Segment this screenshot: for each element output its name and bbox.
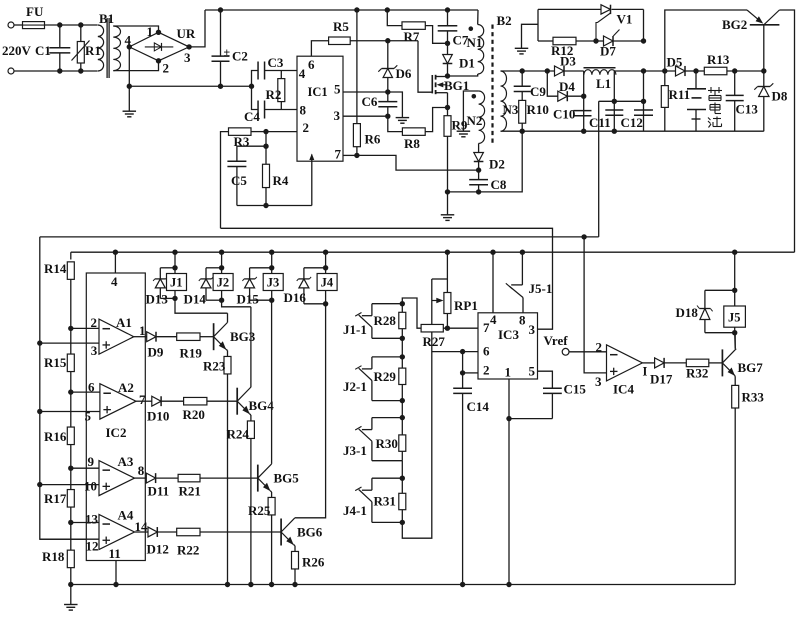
svg-text:C4: C4: [244, 109, 260, 124]
svg-text:B2: B2: [497, 13, 512, 28]
svg-text:1: 1: [139, 323, 146, 338]
wire chain top corner: [70, 252, 72, 259]
svg-text:IC2: IC2: [106, 425, 127, 440]
capacitor C5: [237, 146, 266, 161]
wire D5 to battery node: [685, 70, 696, 72]
diode D3: [555, 66, 565, 76]
resistor R4: [265, 146, 267, 164]
capacitor C14: [462, 352, 464, 388]
switch J1-1: [372, 303, 402, 305]
node C11 top junction: [612, 99, 617, 104]
node C8 bottom junction: [476, 189, 481, 194]
svg-text:R9: R9: [452, 118, 468, 133]
svg-text:C6: C6: [362, 94, 378, 109]
svg-text:FU: FU: [26, 4, 44, 19]
svg-text:R28: R28: [374, 313, 397, 328]
svg-text:IC3: IC3: [498, 327, 519, 342]
wire R5 to gate drop: [350, 40, 418, 42]
node pin1 gnd junction: [506, 582, 511, 587]
svg-text:11: 11: [109, 546, 121, 561]
transistor BG4: [236, 388, 238, 415]
winding N1: [478, 25, 484, 75]
svg-text:J5-1: J5-1: [529, 281, 553, 296]
winding N3: [501, 71, 507, 131]
svg-text:C5: C5: [231, 173, 247, 188]
svg-text:R8: R8: [404, 136, 420, 151]
wire L1 right to main: [615, 70, 644, 72]
wire N1 bottom to drain: [448, 74, 478, 76]
resistor R27: [421, 324, 443, 332]
transformer B1 core: [106, 18, 108, 78]
wire V1 top line: [538, 8, 601, 10]
bridge UR inner diode: [145, 46, 174, 48]
capacitor C4: [252, 86, 259, 109]
wire A3 pin10: [37, 482, 42, 487]
svg-text:R27: R27: [423, 334, 446, 349]
svg-text:R26: R26: [302, 555, 325, 570]
node D7 anode junction: [593, 38, 598, 43]
wire mains bottom line: [14, 70, 98, 72]
resistor R21: [156, 477, 178, 479]
label battery dian: [710, 103, 721, 114]
ground primary return: [441, 214, 455, 216]
op-amp A2: [100, 384, 136, 419]
svg-text:R33: R33: [742, 390, 765, 405]
diode D4: [558, 91, 568, 101]
node C1 bottom junction: [57, 68, 62, 73]
node D8 top junction: [761, 68, 766, 73]
wire aux gnd rail: [448, 131, 523, 192]
node R9 gnd rail junction: [445, 189, 450, 194]
inductor L1: [584, 67, 616, 69]
wire pin3 down to R8: [388, 116, 403, 131]
resistor R10: [519, 100, 526, 123]
node chain J1-1 bottom: [400, 336, 405, 341]
diode D1: [447, 43, 449, 54]
svg-text:7: 7: [139, 392, 146, 407]
svg-text:R32: R32: [686, 366, 708, 381]
wire mains top line: [14, 24, 23, 26]
wire IC1 pin2: [266, 131, 297, 133]
node R1 top junction: [78, 22, 83, 27]
svg-text:J2: J2: [217, 276, 230, 290]
fuse FU: [23, 22, 45, 29]
svg-text:4: 4: [125, 33, 132, 48]
capacitor C9: [521, 71, 523, 86]
wire sense line down: [598, 101, 600, 237]
label battery chi: [708, 117, 722, 128]
node C10 bottom: [581, 129, 586, 134]
resistor R18: [70, 523, 72, 551]
svg-text:6: 6: [308, 57, 315, 72]
node C14 gnd junction: [460, 582, 465, 587]
node C3/C4 branch: [249, 84, 254, 89]
svg-text:BG3: BG3: [230, 329, 256, 344]
diode D5: [676, 66, 686, 76]
wire R7 rail drop: [385, 7, 390, 12]
wire A2 pin5: [37, 409, 42, 414]
svg-text:R22: R22: [177, 543, 199, 558]
resistor R22: [158, 531, 177, 533]
wire feedback line to IC3 pin3: [221, 228, 553, 329]
wire IC1 pin6 to R5: [311, 41, 328, 56]
wire R11 top rail: [665, 10, 747, 71]
wire L1 left drop: [583, 71, 585, 131]
svg-text:R10: R10: [527, 102, 549, 117]
node C13 top junction: [732, 68, 737, 73]
zener D8: [763, 71, 765, 87]
switch J4-1: [372, 477, 402, 479]
svg-text:J2-1: J2-1: [343, 379, 367, 394]
node D6 top: [385, 38, 390, 43]
svg-text:R6: R6: [365, 132, 381, 147]
node UR top vertex: [156, 30, 161, 35]
svg-text:BG6: BG6: [297, 525, 323, 540]
node sense drop junction: [581, 234, 586, 239]
svg-text:C8: C8: [491, 177, 507, 192]
resistor R23: [226, 349, 228, 350]
node R26 gnd junction: [292, 582, 297, 587]
resistor R8: [402, 128, 425, 136]
node RP1/R27 junction: [445, 326, 450, 331]
transistor BG7: [721, 349, 723, 376]
node D7 out junction: [641, 38, 646, 43]
svg-text:12: 12: [86, 539, 99, 554]
label battery xu: [708, 87, 722, 101]
node primary gnd junction: [127, 84, 132, 89]
diode D17: [642, 362, 654, 364]
diode D12: [135, 531, 149, 533]
capacitor C10: [574, 110, 592, 112]
node main line D7 drop: [641, 68, 646, 73]
potentiometer RP1: [445, 250, 450, 255]
capacitor C12: [643, 71, 645, 131]
wire UR out to top rail: [189, 10, 205, 47]
node chain J2-1 top: [400, 354, 405, 359]
svg-text:13: 13: [85, 512, 99, 527]
svg-text:3: 3: [334, 108, 341, 123]
thyristor V1: [601, 5, 611, 14]
resistor R17: [70, 468, 72, 489]
svg-text:R30: R30: [376, 436, 398, 451]
switch J3-1: [372, 417, 402, 419]
svg-text:I: I: [643, 365, 648, 379]
wire chain bottom hook: [402, 279, 432, 538]
node UR left vertex: [127, 44, 132, 49]
svg-text:R14: R14: [44, 261, 67, 276]
svg-text:J4-1: J4-1: [343, 503, 367, 518]
svg-text:N3: N3: [503, 102, 519, 117]
svg-text:C10: C10: [553, 107, 575, 122]
svg-text:±: ±: [224, 45, 231, 59]
node A1 pin2 junction: [68, 326, 73, 331]
svg-text:C2: C2: [232, 49, 248, 64]
wire R7 to C7 node: [425, 26, 447, 44]
transformer B1 secondary: [113, 26, 120, 71]
wire IC1 pin5: [343, 91, 388, 93]
node pin7 junction: [354, 153, 359, 158]
svg-text:4: 4: [490, 312, 497, 327]
svg-text:D13: D13: [146, 292, 169, 307]
resistor R31: [401, 478, 403, 493]
svg-text:D2: D2: [489, 157, 505, 172]
svg-text:5: 5: [334, 82, 341, 97]
svg-text:R12: R12: [551, 43, 573, 58]
ground C6 area: [396, 117, 410, 119]
node chain J2-1 bottom: [400, 398, 405, 403]
svg-text:2: 2: [483, 363, 490, 378]
resistor R3: [229, 128, 252, 136]
node chain bottom junction: [68, 582, 73, 587]
resistor R9: [447, 108, 449, 116]
ground V1 area: [515, 47, 529, 49]
resistor R5: [329, 37, 351, 45]
svg-text:N1: N1: [467, 35, 483, 50]
svg-text:D16: D16: [284, 290, 307, 305]
wire UR left vertex down: [128, 47, 130, 86]
ground primary: [128, 86, 130, 111]
relay J1 with diode D13: [172, 250, 177, 255]
svg-text:D10: D10: [147, 409, 169, 424]
ground lower left: [64, 604, 78, 606]
node BG1 drain junction: [445, 73, 450, 78]
node R1 bottom junction: [78, 68, 83, 73]
wire pin5 to gnd hook: [388, 92, 403, 118]
resistor R25: [270, 491, 271, 492]
resistor R16: [70, 392, 72, 427]
wire left input bus: [40, 237, 99, 539]
wire R9 to ground: [447, 192, 449, 215]
svg-text:A3: A3: [118, 454, 134, 469]
wire IC1 pin7: [343, 154, 357, 156]
wire chain seg1: [401, 338, 403, 357]
svg-text:R13: R13: [707, 52, 730, 67]
transistor BG1 MOSFET: [431, 75, 433, 93]
resistor R33: [734, 375, 737, 376]
wire IC2 pin11: [115, 561, 117, 585]
svg-text:A2: A2: [118, 380, 134, 395]
wire J2 to BG4 collector: [222, 300, 251, 307]
svg-text:L1: L1: [596, 76, 611, 91]
svg-text:UR: UR: [177, 26, 196, 41]
transformer B1 primary: [98, 25, 104, 71]
wire chain top hook to R27: [402, 298, 421, 328]
wire V1 cathode drop: [643, 9, 645, 41]
node D2/C8 junction: [476, 167, 481, 172]
svg-text:D8: D8: [772, 89, 788, 104]
svg-text:R16: R16: [44, 429, 67, 444]
node D4 out junction: [581, 94, 586, 99]
node C14 pin2 junction: [460, 370, 465, 375]
resistor R1 varistor: [80, 25, 82, 42]
op-amp A3: [99, 461, 135, 496]
IC2 box: [86, 273, 145, 561]
resistor R11: [664, 71, 666, 86]
svg-text:D4: D4: [559, 79, 575, 94]
node R10 bottom junction: [520, 129, 525, 134]
svg-text:R19: R19: [180, 346, 203, 361]
zener D18: [699, 308, 710, 310]
svg-text:C9: C9: [530, 84, 546, 99]
svg-text:R2: R2: [266, 87, 282, 102]
wire A3 pin9: [71, 467, 99, 469]
wire IC3 pin5 to C15: [538, 371, 553, 388]
resistor R6: [353, 124, 360, 147]
svg-text:C3: C3: [268, 55, 284, 70]
switch J2-1: [372, 356, 402, 358]
svg-text:J3: J3: [267, 276, 280, 290]
svg-text:8: 8: [138, 463, 145, 478]
relay J2 with diode D14: [219, 250, 224, 255]
node C6 bottom junction: [385, 114, 390, 119]
resistor R32: [664, 362, 686, 364]
svg-text:D14: D14: [184, 292, 207, 307]
node UR right vertex: [186, 44, 191, 49]
svg-text:3: 3: [595, 374, 602, 389]
svg-text:Vref: Vref: [544, 333, 569, 348]
svg-text:R7: R7: [404, 29, 420, 44]
diode D2: [474, 153, 484, 162]
wire sense to IC4 pin3: [584, 237, 606, 373]
node R23 gnd junction: [225, 582, 230, 587]
wire IC3 pin1: [508, 379, 510, 585]
wire D4 branch: [547, 71, 558, 96]
wire A1 pin3: [37, 340, 42, 345]
svg-text:5: 5: [85, 409, 92, 424]
bridge UR diamond: [129, 32, 189, 61]
svg-text:3: 3: [91, 343, 98, 358]
capacitor C3: [252, 71, 259, 87]
node BG1 source junction: [445, 105, 450, 110]
svg-text:2: 2: [596, 340, 603, 355]
svg-text:C13: C13: [736, 102, 759, 117]
capacitor C7: [445, 7, 450, 12]
svg-text:4: 4: [299, 66, 306, 81]
capacitor C13: [734, 71, 736, 95]
wire A4 pin12: [40, 538, 99, 540]
node C7 bottom junction: [445, 41, 450, 46]
capacitor C6: [387, 92, 389, 101]
svg-text:D12: D12: [147, 542, 169, 557]
terminal Vref: [562, 348, 569, 355]
wire lower supply rail: [71, 251, 795, 253]
svg-text:9: 9: [88, 454, 95, 469]
node C14 top junction: [460, 349, 465, 354]
svg-text:R24: R24: [227, 427, 250, 442]
resistor R30: [401, 418, 403, 435]
wire BG5 collector: [271, 300, 273, 464]
wire BG6 collector: [295, 304, 326, 518]
svg-text:A4: A4: [118, 508, 134, 523]
svg-text:IC4: IC4: [613, 382, 634, 397]
resistor R26: [294, 545, 296, 546]
resistor R29: [401, 357, 403, 368]
wire R6 rail line: [354, 7, 359, 12]
resistor R20: [161, 400, 183, 402]
svg-text:R17: R17: [44, 491, 67, 506]
wire gnd bus y86: [129, 85, 251, 87]
svg-text:D1: D1: [459, 56, 475, 71]
wire B1 sec top to bridge: [113, 26, 158, 32]
svg-text:R15: R15: [44, 355, 67, 370]
node A2 pin6 junction: [68, 389, 73, 394]
svg-text:D5: D5: [667, 55, 683, 70]
wire pin7 to D2 node: [357, 155, 479, 170]
terminal input lower: [8, 68, 14, 74]
op-amp IC4: [607, 345, 643, 381]
svg-text:2: 2: [303, 120, 310, 135]
wire sense line to lower: [40, 236, 599, 238]
svg-text:R1: R1: [85, 43, 101, 58]
svg-text:BG2: BG2: [722, 17, 747, 32]
svg-text:R29: R29: [374, 369, 397, 384]
capacitor C8: [478, 170, 480, 179]
resistor R28: [401, 304, 403, 313]
svg-text:R20: R20: [183, 407, 205, 422]
wire bat to R13: [696, 70, 704, 72]
node chain J1-1 top: [400, 301, 405, 306]
svg-text:J1-1: J1-1: [343, 322, 367, 337]
wire R8 to source node: [425, 108, 447, 132]
wire BG7 collector: [734, 333, 736, 349]
svg-text:V1: V1: [617, 12, 633, 27]
svg-text:J1: J1: [170, 276, 183, 290]
node battery + junction: [693, 68, 698, 73]
svg-text:D9: D9: [148, 345, 164, 360]
wire BG4 collector: [250, 307, 252, 387]
switch J5-1: [520, 250, 525, 255]
svg-text:1: 1: [505, 365, 512, 380]
diode D9: [134, 336, 147, 338]
wire sense line horizontal: [599, 100, 644, 102]
node R4 bottom: [263, 203, 268, 208]
svg-text:2: 2: [163, 61, 170, 76]
wire chain seg3: [401, 461, 403, 479]
svg-text:6: 6: [483, 344, 490, 359]
svg-text:R25: R25: [248, 503, 271, 518]
wire gate drop: [418, 41, 432, 92]
transformer B2 core dashed: [491, 25, 493, 144]
svg-text:C15: C15: [564, 382, 587, 397]
resistor R24: [250, 414, 251, 415]
wire R4 bottom bus: [237, 205, 312, 207]
capacitor C15: [543, 387, 562, 389]
wire chain seg2: [401, 401, 403, 418]
svg-text:R21: R21: [179, 484, 201, 499]
battery plates: [695, 71, 697, 89]
wire IC1 pin3: [343, 115, 388, 117]
svg-text:7: 7: [335, 147, 342, 162]
wire IC3 pin2: [463, 372, 478, 374]
node R24 gnd junction: [248, 582, 253, 587]
IC3 box: [478, 313, 538, 379]
capacitor C2: [218, 7, 223, 12]
wire IC3 pin6: [432, 351, 478, 353]
svg-text:BG5: BG5: [274, 471, 300, 486]
wire IC3 pin4: [490, 250, 495, 255]
transistor BG2 PNP: [750, 24, 780, 26]
node R4 top junction: [263, 144, 268, 149]
op-amp A1: [99, 319, 134, 354]
svg-text:R5: R5: [333, 19, 349, 34]
wire V1 left drop: [537, 9, 539, 41]
svg-text:BG4: BG4: [249, 398, 275, 413]
svg-text:4: 4: [111, 274, 118, 289]
wire gnd hook top: [522, 24, 539, 48]
node R3 junction: [263, 129, 268, 134]
wire D3 out: [564, 70, 583, 72]
svg-text:10: 10: [84, 479, 97, 494]
